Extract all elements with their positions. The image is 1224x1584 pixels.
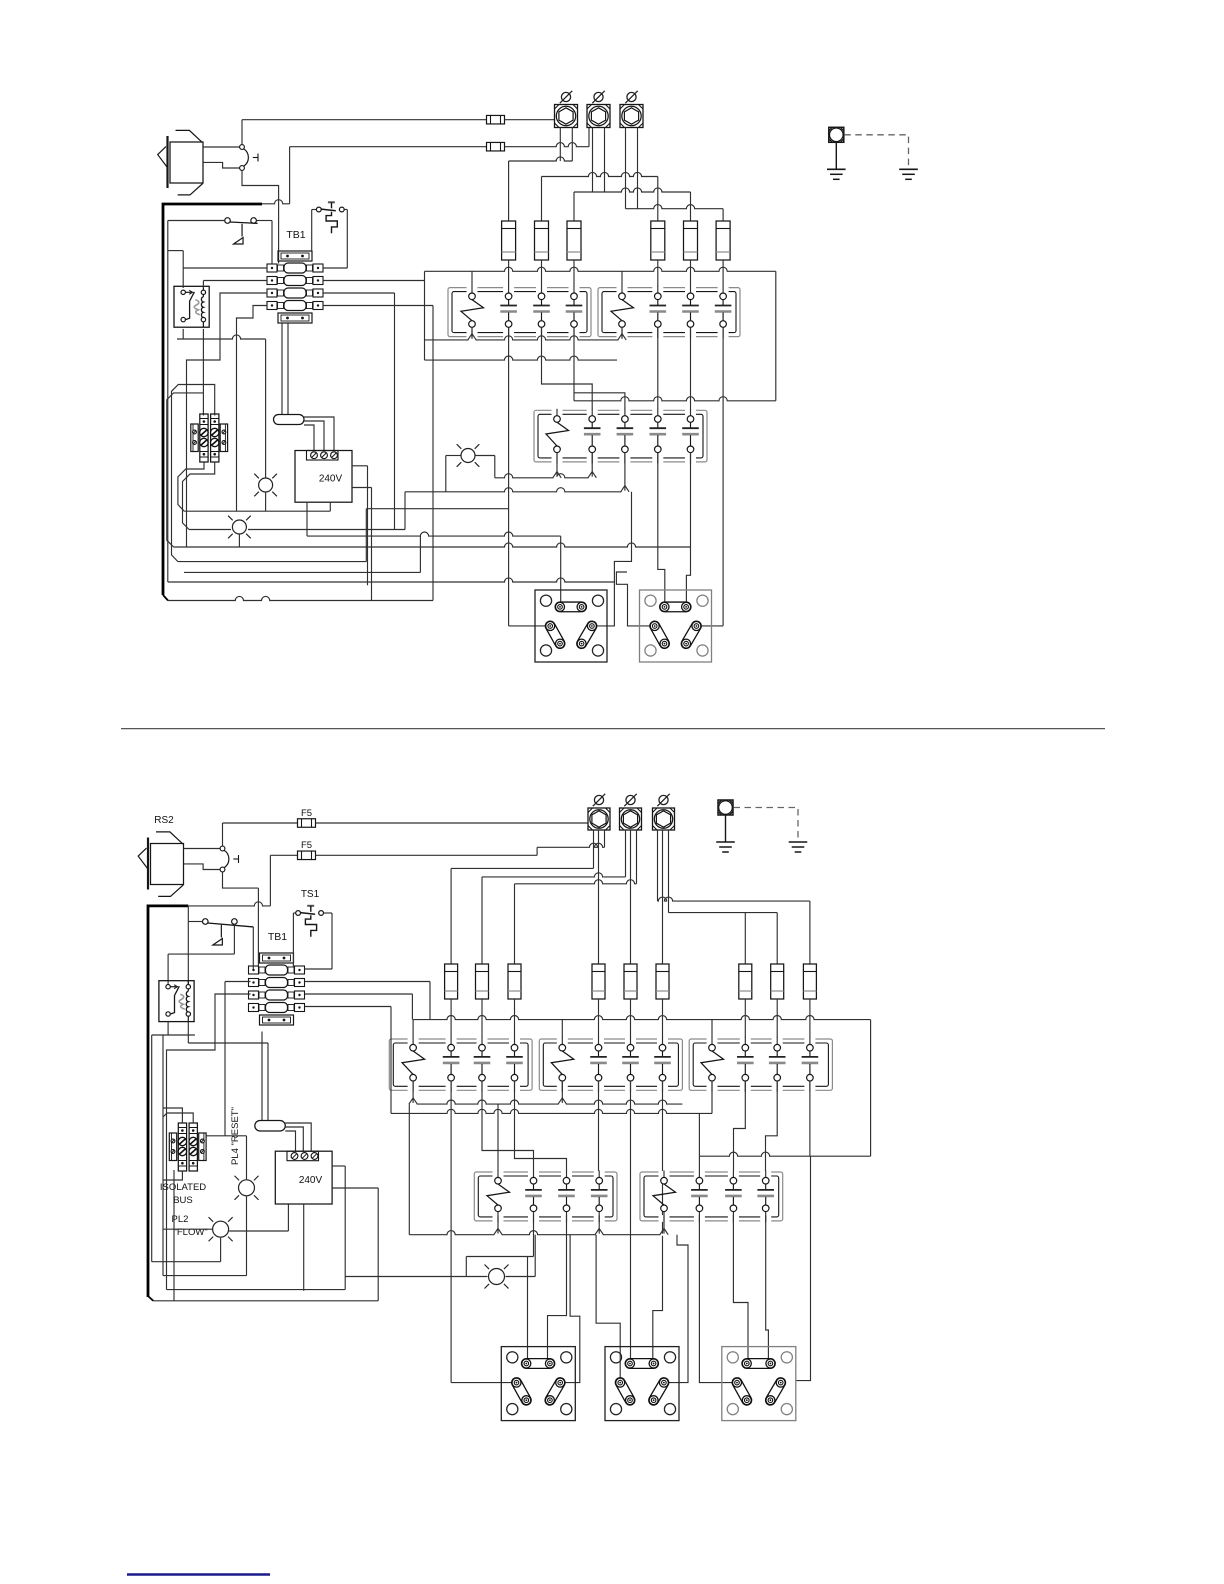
svg-text:ISOLATED: ISOLATED	[160, 1182, 206, 1193]
svg-text:TB1: TB1	[268, 931, 287, 943]
svg-text:BUS: BUS	[173, 1195, 193, 1206]
svg-text:240V: 240V	[319, 474, 343, 485]
svg-text:RS2: RS2	[154, 815, 174, 826]
svg-text:TS1: TS1	[301, 889, 320, 900]
svg-text:240V: 240V	[299, 1175, 323, 1186]
svg-text:TB1: TB1	[286, 229, 305, 241]
svg-text:F5: F5	[301, 840, 312, 851]
svg-text:F5: F5	[301, 808, 312, 819]
